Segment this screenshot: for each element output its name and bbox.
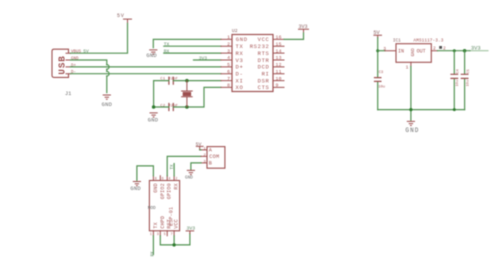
svg-text:TX: TX [171,164,175,170]
connector COM box [207,147,225,169]
crystal Q1 [182,81,193,107]
svg-text:C3: C3 [379,71,384,75]
svg-text:14: 14 [276,48,282,54]
svg-text:3V3: 3V3 [471,46,481,52]
wire IN [378,50,385,52]
svg-text:2: 2 [227,41,230,47]
svg-text:RX: RX [174,183,180,189]
op IC1 AMS1117-3.3 box [396,44,431,63]
ground (crystal) [150,113,157,117]
svg-text:7: 7 [171,233,173,237]
svg-text:5V: 5V [196,141,202,147]
wire 5V input vertical [377,38,379,110]
svg-text:11: 11 [276,69,282,75]
svg-text:XO: XO [236,84,244,91]
svg-text:J1: J1 [65,91,71,97]
wire COM pin1 [200,149,201,151]
node rail junction reg [409,108,412,111]
ESP bottom pin numbers [150,233,173,237]
wire regulator gnd drop [410,67,412,121]
capacitor C2 [169,104,173,111]
svg-text:B: B [209,160,212,166]
U2 right pin stubs [273,39,284,87]
svg-text:8: 8 [227,83,230,89]
svg-text:ESP-01: ESP-01 [169,207,175,226]
node out junction 1 [453,49,456,52]
svg-text:VBUS: VBUS [71,51,82,55]
svg-text:GND: GND [102,102,112,108]
capacitor C3 (input) [375,78,381,82]
wire USB GND down with hops [71,60,107,93]
svg-text:CHPD: CHPD [160,216,166,229]
wire ESP RX net TX [173,164,175,176]
wire D- [71,73,222,75]
supply 3V3 (pin16) [299,29,309,33]
svg-text:4: 4 [227,55,230,61]
node rail junction cap [453,108,456,111]
svg-text:AMS1117-3.3: AMS1117-3.3 [413,38,443,43]
wire XI line [154,81,221,107]
svg-text:1: 1 [406,64,409,70]
wire D+ [71,66,222,68]
wire RX (net stub) [164,52,221,54]
svg-text:C5: C5 [467,69,471,73]
svg-text:2: 2 [175,178,177,182]
svg-text:6: 6 [227,69,230,75]
svg-text:3: 3 [157,233,159,237]
svg-text:12: 12 [276,62,282,68]
node XO junction [185,105,189,109]
IC1 pin stubs [385,51,438,67]
svg-text:CTS: CTS [258,84,270,91]
supply 5V (top left) [124,19,132,23]
svg-text:C4: C4 [457,69,461,73]
svg-text:RX: RX [151,251,155,257]
svg-text:3: 3 [227,48,230,54]
svg-text:COM: COM [209,154,219,160]
svg-text:15: 15 [276,41,282,47]
op IC U2 CH340G box [232,35,273,92]
svg-text:GND: GND [148,117,158,123]
COM pin stubs [201,150,207,163]
wire ESP CHPD + VCC to 3V3 [160,234,190,245]
ground (IC pin1) [150,50,157,54]
wire IC pin1 GND [153,39,221,47]
node GND junction (crystal) [152,105,156,109]
svg-text:10u: 10u [456,80,460,86]
svg-text:5: 5 [164,233,166,237]
module U3 ESP-01 box [149,181,179,231]
wire VBUS to 5V [71,23,128,53]
wire pin16 to 3V3 [284,33,304,39]
svg-text:TX: TX [153,222,159,228]
COM pin numbers [203,147,206,164]
svg-text:5V: 5V [373,30,380,36]
ground (COM) [187,170,194,174]
svg-text:3V3: 3V3 [199,55,208,61]
capacitor C4 (out left) [453,51,455,110]
wire ESP GND to ground [137,166,154,180]
ground (USB) [103,95,110,99]
U2 right pin numbers [276,35,282,89]
wire OUT rail [438,50,471,52]
wire 3V3 (net stub pin4) [194,59,222,61]
svg-text:RX: RX [164,49,170,55]
wire TX (net stub) [164,45,221,47]
svg-text:10u: 10u [467,80,471,86]
svg-text:5V: 5V [117,13,125,19]
svg-text:GND: GND [130,186,140,192]
svg-text:VCC: VCC [174,219,180,229]
svg-text:USB: USB [56,55,67,74]
node VCC junction [172,243,175,246]
node XI junction [185,79,189,83]
svg-text:4: 4 [168,178,170,182]
svg-text:16: 16 [276,35,282,41]
svg-text:10u: 10u [378,86,385,90]
ground (ESP) [133,182,140,186]
ESP top pin stubs [153,176,174,181]
svg-text:3: 3 [383,46,386,52]
U2 right pin names [250,36,270,91]
svg-text:1: 1 [150,233,152,237]
wire ESP GPIO0 to COM pin2 [167,156,201,175]
svg-text:2: 2 [433,46,436,52]
ESP top pin numbers [155,178,178,182]
svg-text:8: 8 [155,178,157,182]
wire XO bottom line [154,87,221,107]
wire bottom rail [378,109,465,111]
svg-text:7: 7 [227,76,230,82]
svg-text:GND: GND [146,53,156,59]
svg-text:5: 5 [227,62,230,68]
wire ESP TX net RX [152,236,154,255]
supply 5V (regulator) [374,35,382,37]
ESP bottom pin stubs [153,231,174,236]
svg-text:1: 1 [227,35,230,41]
U2 left pin numbers [227,35,230,89]
svg-text:6: 6 [162,178,164,182]
svg-text:13: 13 [276,55,282,61]
svg-text:GND: GND [410,48,416,57]
U2 left pin stubs [221,39,232,87]
wire COM pin3 to ground [191,163,201,170]
svg-text:3V3: 3V3 [187,225,196,231]
svg-text:10: 10 [276,76,282,82]
supply 5V (COM) [196,146,203,150]
capacitor C1 [169,77,173,84]
J1 pin stubs [66,53,71,73]
svg-text:TX: TX [164,42,170,48]
U2 left pin names [236,36,248,91]
svg-text:3V3: 3V3 [299,24,308,30]
svg-text:IC1: IC1 [393,39,401,44]
svg-text:GPIO2: GPIO2 [160,183,166,199]
wire hop over D- [107,71,109,76]
ESP top pin names (rotated) [153,183,180,199]
wire hop over D+ [107,65,109,70]
svg-text:GND: GND [153,183,159,193]
svg-text:9: 9 [276,83,279,89]
node out junction 2 [463,49,466,52]
ESP bottom pin names (rotated) [153,216,180,229]
supply 3V3 (ESP) [186,231,194,234]
svg-text:GPIO0: GPIO0 [167,183,173,199]
svg-text:MOD: MOD [148,206,156,211]
svg-text:U2: U2 [232,28,238,34]
capacitor C5 (out right) [464,51,466,110]
J1 pin names [71,51,82,76]
svg-text:IN: IN [398,49,404,55]
ground (regulator) [407,121,414,125]
node IN junction [376,49,379,52]
svg-text:GND: GND [405,127,419,134]
svg-text:OUT: OUT [417,49,426,55]
connector J1 USB shell [52,49,69,77]
svg-text:GND: GND [185,175,193,180]
